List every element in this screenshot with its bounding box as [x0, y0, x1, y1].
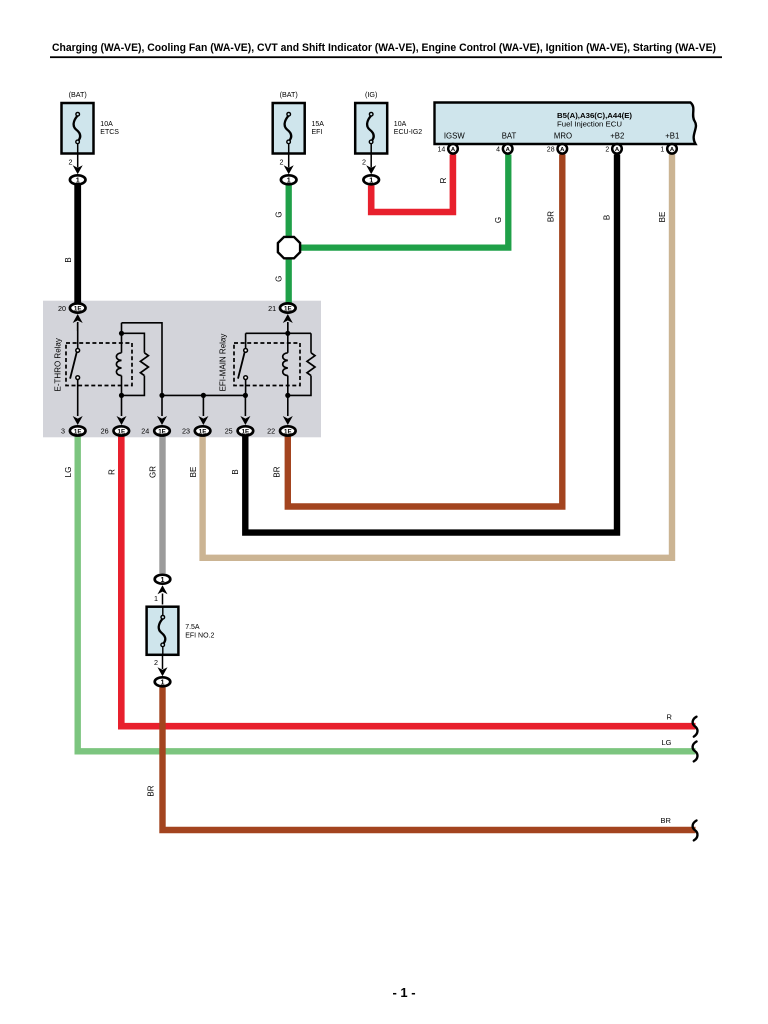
svg-text:(IG): (IG): [365, 90, 377, 99]
ECU pin 2 connector A: [605, 144, 621, 154]
relay E-THRO arrow into pin 26: [117, 416, 127, 425]
wire B from relay pin 25 to ECU +B2: [231, 155, 617, 533]
svg-text:+B2: +B2: [610, 131, 624, 140]
wire BE from relay pin 23 to ECU +B1: [189, 155, 672, 558]
relay block background: [43, 301, 321, 438]
wire R from fuse ECU-IG2 to ECU IGSW: [371, 155, 453, 213]
relay E-THRO coil: [116, 323, 124, 416]
svg-text:BE: BE: [658, 212, 667, 223]
relay EFI-MAIN arrow into pin 21: [283, 314, 293, 331]
fuse F3 10A ECU-IG2: [355, 90, 422, 154]
svg-text:1E: 1E: [74, 305, 82, 312]
svg-text:IGSW: IGSW: [444, 131, 465, 140]
svg-text:23: 23: [182, 427, 190, 436]
svg-text:1: 1: [154, 594, 158, 603]
svg-text:1: 1: [660, 146, 664, 153]
svg-text:GR: GR: [149, 466, 158, 478]
svg-text:B: B: [64, 257, 73, 262]
connector 1E pin 24: [141, 426, 170, 435]
svg-text:4: 4: [496, 146, 500, 153]
wire break symbol BR: [693, 821, 698, 841]
svg-text:A: A: [451, 147, 456, 153]
svg-text:B: B: [602, 215, 611, 220]
svg-text:B: B: [231, 469, 240, 474]
ECU pin 4 connector A: [496, 144, 512, 154]
svg-text:1: 1: [161, 678, 165, 687]
svg-text:7.5A: 7.5A: [185, 624, 200, 631]
relay arrow into pin 23: [198, 416, 208, 425]
svg-text:BR: BR: [273, 466, 282, 477]
svg-text:A: A: [506, 147, 511, 153]
ECU pin 28 connector A: [547, 144, 567, 154]
svg-text:1E: 1E: [118, 428, 126, 435]
svg-text:G: G: [274, 276, 283, 282]
svg-text:(BAT): (BAT): [69, 90, 87, 99]
wire BR from relay pin 22 to ECU MRO: [273, 155, 563, 507]
fuse F4 pin 1 arrow: [154, 585, 168, 604]
svg-text:EFI NO.2: EFI NO.2: [185, 632, 214, 639]
svg-text:2: 2: [154, 658, 158, 667]
ECU pin 14 connector A: [438, 144, 458, 154]
svg-text:1E: 1E: [284, 428, 292, 435]
relay E-THRO arrow into pin 3: [73, 416, 83, 425]
svg-text:1E: 1E: [199, 428, 207, 435]
connector 1 below F2: [281, 175, 297, 184]
svg-text:1: 1: [369, 175, 373, 184]
wire G from fuse EFI through node to ECU BAT and relay pin 21: [274, 155, 508, 304]
connector 1E pin 23: [182, 426, 210, 435]
svg-text:A: A: [615, 147, 620, 153]
svg-text:E-THRO Relay: E-THRO Relay: [53, 338, 62, 391]
svg-text:LG: LG: [662, 738, 672, 747]
svg-text:ECU-IG2: ECU-IG2: [394, 129, 423, 136]
svg-text:G: G: [494, 217, 503, 223]
svg-text:+B1: +B1: [665, 131, 679, 140]
node junction octagon: [278, 237, 300, 258]
relay arrow into pin 24: [157, 416, 167, 425]
svg-text:A: A: [670, 147, 675, 153]
wire R from relay pin 26 to right edge: [107, 437, 695, 727]
relay EFI-MAIN switch: [238, 333, 248, 395]
connector 1E pin 20: [58, 303, 85, 313]
title: [50, 42, 722, 58]
fuse F2 pin 2 arrow: [280, 144, 294, 175]
svg-text:2: 2: [362, 157, 366, 166]
svg-text:2: 2: [605, 146, 609, 153]
svg-text:EFI: EFI: [312, 129, 323, 136]
wire BR from fuse EFI NO.2 to right edge: [146, 687, 695, 830]
svg-text:20: 20: [58, 304, 66, 313]
junction at pin 25: [243, 393, 248, 416]
wire link E-THRO coil to pin 24: [122, 323, 165, 416]
svg-text:14: 14: [438, 146, 446, 153]
connector 1E pin 21: [268, 303, 296, 313]
svg-text:BR: BR: [146, 785, 155, 796]
wire LG from relay pin 3 to right edge: [64, 437, 696, 752]
svg-text:3: 3: [61, 427, 65, 436]
svg-text:1: 1: [76, 175, 80, 184]
svg-text:BR: BR: [661, 816, 672, 825]
svg-text:21: 21: [268, 304, 276, 313]
fuse F1 pin 2 arrow: [69, 144, 83, 175]
wire mid bus to pins 23 25: [162, 393, 245, 416]
svg-text:EFI-MAIN Relay: EFI-MAIN Relay: [219, 334, 228, 392]
relay E-THRO resistor: [122, 333, 149, 395]
relay EFI-MAIN dashed case: [234, 343, 300, 386]
relay arrow into pin 22: [283, 416, 293, 425]
relay E-THRO switch: [70, 323, 80, 416]
connector 1E pin 25: [225, 426, 254, 435]
svg-text:- 1 -: - 1 -: [392, 985, 415, 1000]
svg-text:2: 2: [69, 157, 73, 166]
connector 1E pin 22: [267, 426, 296, 435]
svg-text:1E: 1E: [74, 428, 82, 435]
svg-text:10A: 10A: [100, 121, 113, 128]
fuse F4 pin 2 arrow: [154, 655, 168, 676]
svg-text:1E: 1E: [158, 428, 166, 435]
svg-text:25: 25: [225, 427, 233, 436]
connector 1E pin 3: [61, 426, 85, 435]
svg-text:R: R: [107, 469, 116, 475]
svg-text:A: A: [560, 147, 565, 153]
fuse F1 10A ETCS: [62, 90, 120, 154]
svg-text:BE: BE: [189, 467, 198, 478]
wire GR from relay pin 24 to fuse EFI NO.2: [149, 437, 163, 574]
wire break symbol R: [693, 717, 698, 737]
connector 1 below F1: [70, 175, 86, 184]
svg-text:Charging (WA-VE), Cooling Fan: Charging (WA-VE), Cooling Fan (WA-VE), C…: [52, 42, 716, 54]
connector 1E pin 26: [101, 426, 130, 435]
svg-text:G: G: [274, 211, 283, 217]
svg-text:LG: LG: [64, 467, 73, 478]
ECU U1 Fuel Injection ECU: [435, 103, 696, 145]
svg-text:BR: BR: [547, 211, 556, 222]
fuse F4 7.5A EFI NO.2: [147, 607, 215, 655]
svg-text:ETCS: ETCS: [100, 129, 119, 136]
svg-text:1: 1: [161, 575, 165, 584]
svg-text:MRO: MRO: [554, 131, 572, 140]
svg-text:1: 1: [287, 175, 291, 184]
svg-text:(BAT): (BAT): [280, 90, 298, 99]
svg-text:10A: 10A: [394, 121, 407, 128]
svg-text:Fuel Injection ECU: Fuel Injection ECU: [557, 120, 622, 129]
svg-text:R: R: [439, 177, 448, 183]
svg-text:BAT: BAT: [502, 131, 517, 140]
connector 1 below fuse EFI NO.2: [155, 677, 171, 686]
svg-text:22: 22: [267, 427, 275, 436]
svg-text:1E: 1E: [242, 428, 250, 435]
wire B from fuse ETCS to relay pin 20: [64, 185, 78, 303]
connector 1 above fuse EFI NO.2: [155, 575, 171, 584]
wire break symbol LG: [693, 742, 698, 762]
relay EFI-MAIN coil top bus: [246, 331, 311, 336]
relay E-THRO dashed case: [66, 343, 132, 386]
fuse F2 15A EFI: [273, 90, 325, 154]
relay E-THRO arrow into pin 20: [73, 314, 83, 331]
fuse F3 pin 2 arrow: [362, 144, 376, 175]
relay EFI-MAIN coil: [283, 323, 291, 416]
svg-text:26: 26: [101, 427, 109, 436]
svg-text:1E: 1E: [284, 305, 292, 312]
svg-text:2: 2: [280, 157, 284, 166]
connector 1 below F3: [363, 175, 379, 184]
svg-text:24: 24: [141, 427, 149, 436]
svg-text:15A: 15A: [312, 121, 325, 128]
relay arrow into pin 25: [240, 416, 250, 425]
relay EFI-MAIN resistor: [288, 333, 315, 395]
svg-text:28: 28: [547, 146, 555, 153]
ECU pin 1 connector A: [660, 144, 676, 154]
svg-text:R: R: [667, 713, 673, 722]
